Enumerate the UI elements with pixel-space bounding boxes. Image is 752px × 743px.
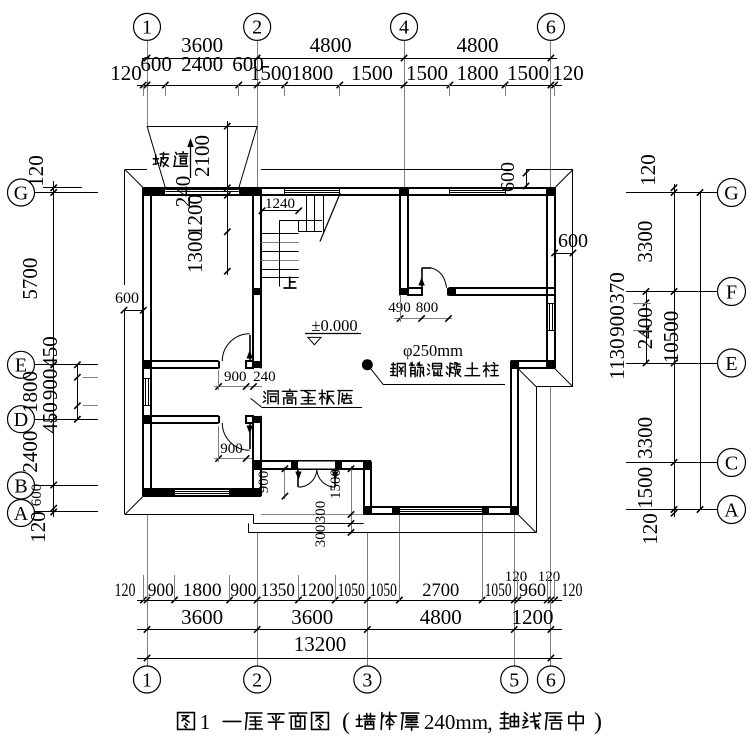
svg-text:120: 120 bbox=[552, 61, 584, 85]
north wall black fill east of ramp opening bbox=[239, 188, 261, 195]
svg-text:490: 490 bbox=[388, 300, 411, 316]
svg-text:600: 600 bbox=[558, 230, 588, 252]
black fill porch stub end bbox=[253, 489, 261, 496]
axis 2 porch stub wall below C bbox=[252, 469, 254, 496]
ramp left edge bbox=[147, 126, 165, 188]
svg-text:φ250mm: φ250mm bbox=[403, 341, 463, 360]
svg-text:300: 300 bbox=[313, 501, 329, 524]
threshold lines entrance bbox=[298, 461, 335, 463]
annotation leader dong-gao-zhi-ban-di bbox=[251, 398, 262, 407]
svg-text:600: 600 bbox=[140, 52, 172, 76]
axis 3 grid line bottom bbox=[367, 533, 369, 666]
axis bubble A left bbox=[8, 500, 35, 527]
svg-text:120: 120 bbox=[110, 61, 142, 85]
axis 2 wall upper G-E bbox=[252, 188, 254, 369]
door jamb stub 240 wall D bbox=[246, 416, 253, 423]
svg-text:600: 600 bbox=[115, 290, 139, 307]
door stub 490 wall F bbox=[408, 288, 422, 295]
svg-text:±0.000: ±0.000 bbox=[311, 316, 357, 335]
svg-text:300: 300 bbox=[313, 525, 329, 548]
east wall axis 6 faces bbox=[546, 188, 548, 369]
bottom dimension row C: 13200 bbox=[137, 658, 562, 660]
top dimension row 1: 3600 4800 4800 bbox=[142, 58, 557, 60]
door M3 800 leaf in wall F bbox=[421, 268, 423, 288]
door M1 900 leaf in wall E bbox=[249, 335, 251, 361]
vertical dims 2100/240/1200/1300 bbox=[227, 121, 229, 275]
svg-text:2: 2 bbox=[252, 17, 262, 39]
axis 4 wall faces bbox=[399, 188, 401, 296]
door jamb stub 240 wall E bbox=[246, 361, 253, 368]
svg-text:5700: 5700 bbox=[18, 258, 42, 300]
dim 900/240 for door M1 bbox=[214, 386, 262, 388]
column leader line bbox=[371, 369, 383, 385]
column fill at G/1 bbox=[143, 188, 151, 195]
black fill C-wall right jamb bbox=[335, 461, 342, 469]
svg-text:1350: 1350 bbox=[261, 580, 295, 601]
porch step 2 bbox=[248, 532, 367, 534]
axis bubble 1 bottom bbox=[134, 666, 161, 693]
apron outline north-west corner diagonal bbox=[125, 169, 143, 187]
axis bubble F right bbox=[718, 278, 746, 306]
apron outline south-west below wall B bbox=[125, 514, 254, 516]
north wall axis G faces bbox=[143, 187, 554, 189]
svg-text:1500: 1500 bbox=[507, 61, 549, 85]
svg-text:900: 900 bbox=[148, 580, 174, 601]
wall E-left faces bbox=[143, 360, 218, 362]
concrete column dot at 3/E bbox=[362, 359, 373, 370]
door M2 900 leaf in wall D bbox=[249, 423, 251, 449]
svg-text:4800: 4800 bbox=[310, 33, 352, 57]
window 900 in west wall E-D bbox=[144, 378, 150, 406]
svg-text:1500: 1500 bbox=[633, 467, 657, 509]
axis 3 wall faces bbox=[363, 461, 365, 514]
black fill C-wall at axis3 bbox=[364, 461, 371, 469]
axis 5 wall faces bbox=[510, 361, 512, 514]
axis bubble 6 bottom bbox=[537, 666, 564, 693]
axis bubble 2 top bbox=[244, 13, 271, 40]
svg-text:600: 600 bbox=[497, 162, 519, 192]
axis 6 grid line bottom bbox=[550, 387, 552, 666]
svg-text:900: 900 bbox=[605, 305, 629, 337]
window 2700 in wall A bbox=[399, 507, 482, 509]
svg-text:F: F bbox=[726, 281, 737, 303]
black fill B-wall west bbox=[143, 489, 175, 496]
svg-text:5: 5 bbox=[509, 669, 519, 691]
svg-text:900: 900 bbox=[230, 580, 256, 601]
svg-text:3: 3 bbox=[362, 669, 372, 691]
black fill at 2/E junction bbox=[253, 361, 261, 368]
svg-text:4: 4 bbox=[399, 17, 409, 39]
svg-text:2400: 2400 bbox=[18, 431, 42, 473]
porch stub dim 900 bbox=[284, 467, 286, 500]
svg-text:600: 600 bbox=[29, 484, 45, 507]
top dimension row 2: 120/600/2400/600/1500x6/120 bbox=[137, 85, 562, 87]
axis 5 grid line bottom bbox=[514, 514, 516, 666]
svg-text:120: 120 bbox=[638, 513, 662, 545]
wall E-right faces bbox=[511, 360, 555, 362]
axis bubble C right bbox=[718, 449, 746, 477]
axis bubble 2 bottom bbox=[244, 666, 271, 693]
svg-text:A: A bbox=[724, 499, 739, 521]
svg-text:3600: 3600 bbox=[291, 605, 333, 629]
svg-text:1800: 1800 bbox=[183, 580, 222, 601]
svg-text:900: 900 bbox=[38, 369, 62, 401]
right overall dimension 10500 bbox=[700, 193, 702, 510]
svg-text:6: 6 bbox=[546, 669, 556, 691]
apron outline west bbox=[124, 169, 126, 285]
black fill B-wall east bbox=[230, 489, 261, 496]
apron corner diagonal at 6/E bbox=[555, 368, 573, 386]
svg-text:C: C bbox=[725, 452, 738, 474]
axis bubble 6 top bbox=[537, 13, 564, 40]
black fill E/6 bbox=[547, 361, 555, 368]
svg-text:120: 120 bbox=[115, 580, 136, 601]
black fill at 2/B junction bbox=[253, 489, 261, 496]
porch slab edge line bbox=[261, 514, 364, 516]
svg-text:2100: 2100 bbox=[190, 135, 214, 177]
svg-text:3300: 3300 bbox=[633, 417, 657, 459]
svg-text:E: E bbox=[725, 353, 737, 375]
staircase break line bbox=[320, 193, 340, 242]
svg-text:1500: 1500 bbox=[250, 61, 292, 85]
axis 4 grid line top bbox=[404, 40, 406, 188]
black fill A-wall left jamb bbox=[392, 507, 399, 514]
apron corner diagonal at 5/E bbox=[518, 368, 536, 386]
wall F faces bbox=[449, 287, 555, 289]
svg-text:1: 1 bbox=[200, 710, 211, 734]
svg-text:1200: 1200 bbox=[183, 194, 207, 236]
axis bubble E left bbox=[8, 351, 35, 378]
ramp right edge bbox=[239, 126, 257, 188]
wall B faces bbox=[143, 488, 260, 490]
svg-text:120: 120 bbox=[26, 511, 50, 543]
black fill A/5 bbox=[511, 507, 518, 514]
axis bubble 5 bottom bbox=[501, 666, 528, 693]
porch vertical dims 1500/300/300 bbox=[351, 466, 353, 534]
apron outline east of axis-5 wall bbox=[536, 387, 538, 533]
apron outline south-west corner diagonal bbox=[125, 496, 143, 514]
black fill 4/F bbox=[400, 288, 408, 295]
left sub-dimension 450/900/450 window W-wall bbox=[77, 365, 79, 419]
svg-text:2: 2 bbox=[252, 669, 262, 691]
svg-text:120: 120 bbox=[562, 580, 583, 601]
axis 2 wall lower D-B bbox=[252, 416, 254, 496]
dim 900 for door M2 bbox=[214, 458, 252, 460]
svg-text:1200: 1200 bbox=[512, 605, 554, 629]
svg-text:120: 120 bbox=[636, 154, 660, 186]
staircase flights and landing bbox=[306, 195, 308, 232]
svg-text:2700: 2700 bbox=[422, 580, 459, 601]
axis bubble B left bbox=[8, 472, 35, 499]
svg-text:1200: 1200 bbox=[300, 580, 334, 601]
svg-text:6: 6 bbox=[546, 17, 556, 39]
svg-text:1050: 1050 bbox=[370, 580, 397, 601]
axis bubble G left bbox=[8, 179, 35, 206]
svg-text:120: 120 bbox=[505, 569, 528, 585]
apron outline north (right of ramp) bbox=[261, 169, 511, 171]
svg-text:10500: 10500 bbox=[659, 311, 683, 364]
axis bubble A right bbox=[718, 496, 746, 524]
wall D faces bbox=[143, 415, 218, 417]
svg-text:1300: 1300 bbox=[183, 231, 207, 273]
double door right leaf bbox=[334, 469, 336, 487]
porch step 1 bbox=[253, 523, 363, 525]
window 1800 in wall B bbox=[175, 488, 230, 490]
svg-text:450: 450 bbox=[38, 402, 62, 434]
svg-text:G: G bbox=[724, 182, 738, 204]
apron outline north-left segment bbox=[125, 169, 147, 171]
svg-text:): ) bbox=[594, 709, 602, 735]
tie column fill at F/2 bbox=[253, 288, 261, 295]
svg-text:450: 450 bbox=[38, 336, 62, 368]
axis bubble 3 bottom bbox=[354, 666, 381, 693]
apron outline east bbox=[572, 169, 574, 386]
column note gang-jin-hun-ning-tu-zhu bbox=[391, 363, 406, 377]
axis 2 grid line top bbox=[257, 40, 259, 188]
black fill C-wall at axis2 bbox=[253, 461, 261, 469]
column fill at G/6 bbox=[547, 188, 555, 195]
svg-text:1800: 1800 bbox=[291, 61, 333, 85]
apron outline below wall E-right bbox=[536, 386, 573, 388]
svg-text:2400: 2400 bbox=[181, 52, 223, 76]
apron outline south-east corner diagonal bbox=[518, 514, 536, 532]
ramp label po-dao bbox=[153, 152, 168, 166]
black fill 3/A bbox=[364, 507, 371, 514]
caption figure 1 first floor plan bbox=[178, 713, 195, 730]
black fill at 2/G bbox=[253, 188, 261, 195]
bottom dimension row A bbox=[137, 600, 562, 602]
svg-text:900: 900 bbox=[220, 441, 243, 457]
svg-text:1800: 1800 bbox=[456, 61, 498, 85]
svg-text:120: 120 bbox=[538, 569, 561, 585]
svg-text:3600: 3600 bbox=[181, 605, 223, 629]
svg-text:(: ( bbox=[342, 709, 350, 735]
svg-text:240: 240 bbox=[253, 369, 276, 385]
svg-text:120: 120 bbox=[24, 155, 48, 187]
wall C faces bbox=[253, 460, 370, 462]
svg-text:240mm: 240mm bbox=[424, 710, 488, 734]
column fill at D/1 bbox=[143, 416, 151, 423]
dim 1240 stair width bbox=[261, 210, 299, 212]
axis 6 grid line top bbox=[550, 40, 552, 188]
apron outline south below wall A bbox=[367, 532, 536, 534]
svg-text:,: , bbox=[487, 710, 493, 735]
black fill 3/C bbox=[364, 461, 371, 469]
black fill C-wall left jamb bbox=[291, 461, 298, 469]
svg-text:800: 800 bbox=[416, 300, 439, 316]
black fill 5/E bbox=[511, 361, 518, 368]
svg-text:900: 900 bbox=[224, 369, 247, 385]
svg-text:2400: 2400 bbox=[633, 307, 657, 349]
ramp top edge bbox=[147, 126, 257, 128]
dim 490/800 for door M3 bbox=[394, 318, 452, 320]
axis bubble D left bbox=[8, 406, 35, 433]
svg-text:4800: 4800 bbox=[420, 605, 462, 629]
right dimension column: 120/3300/2400/3300/1500/120 bbox=[674, 184, 676, 517]
axis bubble E right bbox=[718, 349, 746, 377]
left dimension column: 120/5700/1800/2400/600/120 bbox=[53, 181, 55, 517]
axis 1 grid line bottom bbox=[147, 514, 149, 666]
svg-text:1130: 1130 bbox=[605, 338, 629, 379]
svg-text:370: 370 bbox=[605, 272, 629, 304]
axis bubble 4 top bbox=[391, 13, 418, 40]
ramp arrow bbox=[190, 142, 192, 178]
svg-text:1240: 1240 bbox=[265, 196, 295, 212]
staircase label shang (up) bbox=[284, 277, 296, 288]
svg-text:1: 1 bbox=[142, 669, 152, 691]
window C1 1800 in north wall (axis 4-6) bbox=[450, 189, 505, 194]
black fill A-wall right jamb bbox=[482, 507, 489, 514]
axis 2 grid line bottom bbox=[257, 532, 259, 666]
axis bubble 1 top bbox=[134, 13, 161, 40]
svg-text:900: 900 bbox=[256, 471, 272, 494]
svg-text:1500: 1500 bbox=[406, 61, 448, 85]
north wall black fill west of ramp opening bbox=[143, 188, 165, 195]
svg-text:1500: 1500 bbox=[328, 469, 344, 499]
column fill at G/4 bbox=[400, 188, 408, 195]
wall A faces bbox=[364, 506, 518, 508]
svg-text:B: B bbox=[14, 475, 27, 497]
garage door lines in ramp opening bbox=[165, 189, 238, 191]
right sub-dimension 370/900/1130 window E-wall bbox=[646, 292, 648, 364]
window C1 1800 in north wall (axis 2-4) bbox=[285, 189, 340, 194]
west wall axis 1 faces bbox=[142, 188, 144, 496]
bottom dimension row B: 3600/3600/4800/1200 bbox=[137, 629, 562, 631]
svg-text:1: 1 bbox=[142, 17, 152, 39]
svg-text:1500: 1500 bbox=[351, 61, 393, 85]
double door left leaf bbox=[297, 469, 299, 487]
apron outline north-east corner diagonal bbox=[555, 169, 573, 187]
svg-text:13200: 13200 bbox=[294, 632, 347, 656]
black fill F-wall right jamb bbox=[448, 288, 456, 295]
black fill at 2/D junction bbox=[253, 416, 261, 423]
svg-text:4800: 4800 bbox=[456, 33, 498, 57]
window 900 in east wall F region bbox=[548, 303, 554, 330]
column fill at E/1 bbox=[143, 361, 151, 368]
axis 1 grid line top bbox=[147, 40, 149, 126]
svg-text:3300: 3300 bbox=[633, 221, 657, 263]
svg-text:1050: 1050 bbox=[338, 580, 365, 601]
axis bubble G right bbox=[718, 179, 746, 207]
